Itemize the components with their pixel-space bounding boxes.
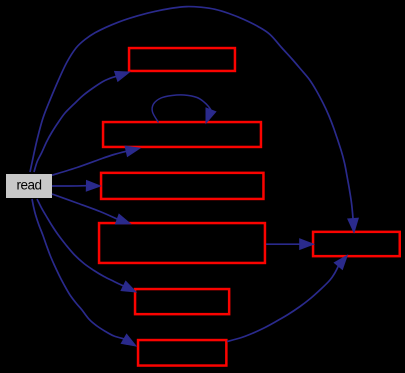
- edge read->node7: [32, 199, 136, 346]
- edge node2->node2 (self loop): [152, 95, 216, 123]
- node2: [103, 122, 261, 147]
- edge read->node1: [34, 71, 130, 172]
- node4: [99, 223, 265, 263]
- edge read->node6: [37, 199, 136, 292]
- edge node4->node5: [266, 239, 314, 250]
- node1: [129, 48, 235, 71]
- node5: [313, 232, 400, 256]
- node7: [138, 340, 226, 366]
- node3: [101, 173, 263, 199]
- edge read->node4: [52, 194, 130, 224]
- edge read->node5 (outer top arc): [30, 7, 358, 233]
- edge read->node2: [52, 146, 140, 175]
- node6: [135, 289, 229, 314]
- edge node7->node5: [227, 255, 347, 341]
- edge read->node3: [52, 181, 100, 192]
- svg-text:read: read: [16, 178, 41, 193]
- node read: [6, 174, 52, 198]
